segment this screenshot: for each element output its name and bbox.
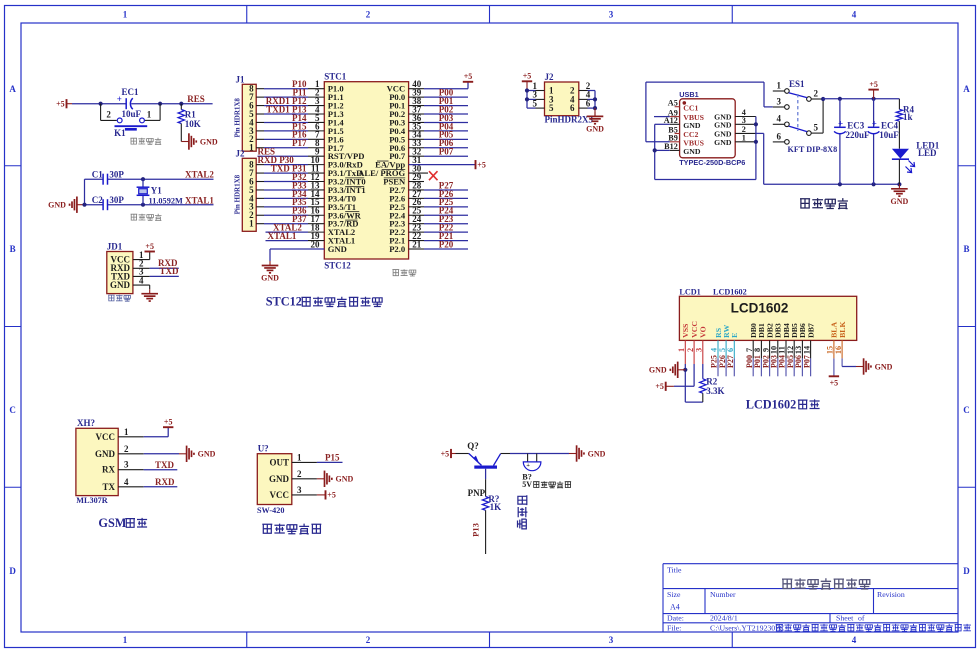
connector JD1 [107,242,150,294]
svg-text:+5: +5 [164,418,173,427]
wire GSM RXD [144,486,178,488]
svg-text:+5: +5 [869,80,878,89]
net label XTAL2 (crystal) [185,169,214,179]
svg-text:A: A [963,84,970,94]
svg-text:4: 4 [852,635,857,645]
LED1 [892,140,940,184]
svg-text:RXD P30: RXD P30 [258,155,295,165]
svg-text:PinHDR2X3: PinHDR2X3 [545,115,594,125]
wire GSM TXD [144,469,178,471]
ground (sensor) [317,471,354,487]
svg-text:6: 6 [777,131,782,141]
svg-text:1K: 1K [490,502,502,512]
net label RES [187,94,205,104]
svg-text:LCD1602: LCD1602 [713,288,747,297]
svg-text:3: 3 [777,96,782,106]
resistor R2 3.3K [685,364,724,402]
svg-text:4: 4 [139,275,144,285]
power +5 (reset) [56,99,66,108]
svg-text:RXD: RXD [155,477,175,487]
svg-text:TXD: TXD [155,460,175,470]
power +5 (MCU EA pin31) [409,160,486,169]
svg-text:GND: GND [261,274,279,283]
pin29 stub [409,181,424,183]
svg-text:C: C [9,405,16,415]
net label RXD (JD1) [158,258,178,268]
power +5 (MCU VCC pin40) [409,72,474,89]
svg-text:+5: +5 [145,242,154,251]
svg-text:GND: GND [714,138,732,147]
wire USB GND loop [653,117,840,185]
svg-text:RX: RX [102,465,115,475]
svg-text:LED: LED [918,148,937,158]
svg-text:+: + [838,119,843,129]
svg-text:2024/8/1: 2024/8/1 [710,614,738,623]
power +5 (sensor) [317,490,336,499]
svg-text:2: 2 [124,444,129,454]
svg-text:XH?: XH? [77,418,95,428]
svg-text:B: B [963,244,969,254]
wire XTAL2 row [266,231,325,233]
svg-text:Revision: Revision [877,590,905,599]
section title 蜂鸣器 vertical [518,495,528,529]
op-amp U1 : MCU STC12 [311,72,422,271]
svg-text:+5: +5 [523,72,532,81]
svg-text:VSS: VSS [681,324,690,338]
svg-text:4: 4 [852,10,857,20]
svg-text:2: 2 [366,10,371,20]
connector J2 Pin HDR1X8 [233,149,256,232]
svg-text:ES1: ES1 [789,79,805,89]
node junction A [99,102,103,106]
svg-text:+5: +5 [327,491,336,500]
svg-text:C:\Users\.YT2192307C: C:\Users\.YT2192307C [710,623,784,632]
svg-text:1: 1 [249,143,254,153]
ground (power circuit) [891,184,909,206]
svg-text:4: 4 [777,114,782,124]
svg-text:GND: GND [875,362,893,371]
wire XTAL1 row [266,240,325,242]
wire RES row [258,155,325,157]
svg-text:1: 1 [297,452,302,462]
svg-text:J2: J2 [236,149,246,159]
ground (reset R1) [181,133,218,149]
svg-text:GND: GND [588,449,606,458]
wire MCU right port rows + net labels P00-P07 P20-P27 [409,88,468,250]
svg-text:5: 5 [814,123,819,133]
svg-text:STC12: STC12 [266,295,302,309]
ground (GSM) [144,446,216,462]
svg-text:STC12: STC12 [324,260,351,270]
svg-text:KFT DIP-8X8: KFT DIP-8X8 [788,145,838,154]
net label RXD (GSM) [155,477,175,487]
crystal Y1 11.0592M [137,179,183,205]
power +5 (J2 header) [522,72,536,108]
net label XTAL1 (crystal) [185,195,214,205]
svg-text:C: C [963,405,970,415]
svg-text:GND: GND [683,121,701,130]
svg-text:SW-420: SW-420 [257,506,284,515]
svg-text:GSM: GSM [98,516,126,530]
svg-text:1: 1 [123,10,128,20]
svg-text:Pin HDR1X8: Pin HDR1X8 [233,174,241,214]
svg-text:+5: +5 [830,379,839,388]
pin30 no-ERC cross [409,171,438,180]
svg-text:+5: +5 [56,100,65,109]
svg-text:30P: 30P [109,169,124,179]
svg-text:10K: 10K [185,119,201,129]
resistor R1 10K [178,102,201,142]
svg-text:VCC: VCC [96,432,116,442]
svg-text:D: D [963,566,970,576]
svg-text:Sheet: Sheet [836,614,854,623]
svg-text:+: + [526,462,530,469]
section title STC12单片机最小系统 [266,295,382,309]
svg-text:5: 5 [549,103,554,113]
svg-text:+5: +5 [477,160,486,169]
svg-text:STC1: STC1 [324,72,347,82]
svg-text:1: 1 [147,110,152,120]
svg-text:RES: RES [187,94,205,104]
wire +5 to RES net [67,103,213,105]
power +5 (LCD VCC) [655,364,694,391]
svg-text:TX: TX [102,482,115,492]
power +5 (buzzer) [441,449,456,458]
svg-text:A4: A4 [670,603,680,612]
svg-text:2: 2 [686,348,695,352]
connector J1 Pin HDR1X8 [233,75,256,153]
svg-text:Pin HDR1X8: Pin HDR1X8 [233,98,241,138]
svg-text:GND: GND [269,474,290,484]
ground (JD1) [141,285,158,301]
svg-text:OUT: OUT [269,457,289,467]
svg-text:+5: +5 [655,382,664,391]
section title LCD1602显示 [746,397,820,411]
svg-text:3: 3 [695,348,704,352]
svg-text:JD1: JD1 [107,242,123,252]
ground (LCD BLK) [842,358,893,374]
svg-text:ML307R: ML307R [76,496,107,505]
svg-text:U?: U? [258,444,269,454]
power +5 (power circuit) [868,80,878,99]
svg-text:Y1: Y1 [151,186,162,196]
svg-text:VCC: VCC [270,490,290,500]
svg-text:1: 1 [249,219,254,229]
label 单片机 [392,269,415,276]
power +5 (GSM) [144,418,174,437]
ground (crystal) [48,197,84,213]
svg-text:16: 16 [834,346,843,354]
svg-text:PNP: PNP [468,488,486,498]
svg-text:3.3K: 3.3K [706,386,724,396]
svg-text:P2.0: P2.0 [389,244,405,254]
node junction B [158,102,162,106]
svg-text:GND: GND [586,124,604,133]
connector U? SW-420 [257,444,317,515]
svg-text:VO: VO [699,326,708,338]
svg-text:J1: J1 [236,75,246,85]
ground (MCU pin20) [261,249,324,282]
svg-text:3: 3 [742,116,746,125]
svg-text:10uF: 10uF [879,130,899,140]
svg-text:C2: C2 [92,195,103,205]
svg-text:P17: P17 [292,138,307,148]
transistor U? : USB1 TYPEC-250D-BCP6 [664,90,756,167]
svg-text:3: 3 [124,460,129,470]
svg-text:3: 3 [297,485,302,495]
resistor R4 1k [896,99,914,149]
resistor R? 1K [482,469,501,554]
svg-text:USB1: USB1 [679,90,698,99]
svg-text:VCC: VCC [690,321,699,338]
wire crystal gnd/left [85,179,214,205]
svg-text:DB7: DB7 [806,323,815,338]
svg-text:E: E [730,333,739,338]
net label P15 [325,453,340,463]
ground (LCD VSS) [649,362,687,403]
svg-text:+: + [117,94,122,104]
svg-text:11.0592M: 11.0592M [149,196,184,205]
svg-text:2: 2 [297,469,302,479]
svg-text:2: 2 [814,88,819,98]
svg-text:LCD1: LCD1 [679,288,700,297]
svg-text:B: B [10,244,16,254]
wire JD1 RXD [150,267,179,269]
op-amp LCD1 : LCD1602 [677,288,857,364]
svg-text:P07: P07 [802,355,811,368]
svg-text:30P: 30P [109,195,124,205]
svg-text:6: 6 [570,103,575,113]
svg-text:XTAL1: XTAL1 [268,231,297,241]
section title GSM模块 [98,516,147,530]
svg-text:P13: P13 [471,523,481,537]
svg-text:GND: GND [110,280,131,290]
svg-text:1: 1 [677,348,686,352]
svg-text:GND: GND [714,120,732,129]
svg-text:4: 4 [124,477,129,487]
net label P13 [471,523,481,537]
capacitor C2 30P [92,195,125,210]
svg-text:14: 14 [802,346,811,354]
svg-text:10uF: 10uF [122,109,142,119]
wire VBUS loop to switch [646,82,773,142]
wire JD1 TXD [150,275,179,277]
svg-text:GND: GND [200,137,218,146]
section title 电源电路 [800,198,848,209]
svg-text:Title: Title [667,565,682,574]
svg-text:220uF: 220uF [846,130,871,140]
power +5 (LCD BLA) [829,358,839,387]
svg-text:GND: GND [336,475,354,484]
svg-text:5V: 5V [522,480,532,489]
svg-text:BLK: BLK [838,321,847,337]
svg-text:EC1: EC1 [122,87,140,97]
svg-text:1: 1 [777,80,782,90]
svg-text:GND: GND [891,197,909,206]
buzzer B? [522,454,571,490]
svg-text:TXD: TXD [160,266,180,276]
switch K1 (push button) [101,104,161,139]
svg-text:R2: R2 [706,377,717,387]
svg-text:P27: P27 [726,355,735,368]
svg-text:K1: K1 [114,128,126,138]
svg-text:GND: GND [649,366,667,375]
svg-text:1: 1 [123,635,128,645]
wire collector to gnd [501,453,569,455]
power +5 (JD1) [145,242,155,260]
svg-text:2: 2 [106,110,111,120]
svg-text:P15: P15 [325,453,340,463]
wire LCD data nets P25-P27 P00-P07 [710,355,812,376]
connector XH? GSM ML307R [76,418,144,505]
svg-text:+5: +5 [441,449,450,458]
wire sensor OUT P15 [317,461,343,463]
connector J2 PinHDR2X3 [533,72,594,125]
svg-text:P20: P20 [439,239,454,249]
label 下载口 [108,295,130,302]
wire GND rail (power) [838,182,902,186]
svg-text:XTAL2: XTAL2 [185,169,214,179]
label 按键复位 [130,138,161,145]
net label TXD (GSM) [155,460,175,470]
transistor Q? PNP [456,441,501,498]
svg-text:Size: Size [667,590,681,599]
wire J1/J2 to MCU rows [256,89,324,224]
svg-text:GND: GND [328,244,347,254]
svg-text:1: 1 [742,133,746,142]
switch ES1 KFT DIP-8X8 [773,79,837,154]
capacitor EC4 10uF [868,99,899,185]
svg-text:Date:: Date: [667,614,684,623]
svg-text:GND: GND [683,147,701,156]
svg-text:LCD1602: LCD1602 [731,301,789,316]
svg-text:P07: P07 [439,147,454,157]
label 晶振电路 [131,214,162,221]
ground (buzzer) [569,445,606,461]
svg-text:GND: GND [198,450,216,459]
svg-text:TYPEC-250D-BCP6: TYPEC-250D-BCP6 [679,158,745,167]
svg-text:Number: Number [710,590,736,599]
ground (J2 header) [586,91,604,134]
svg-text:GND: GND [48,201,66,210]
node crystal top [82,177,145,207]
svg-text:A: A [9,84,16,94]
svg-text:3: 3 [609,10,614,20]
svg-text:1k: 1k [903,112,913,122]
svg-text:LCD1602: LCD1602 [746,397,797,411]
svg-text:CC1: CC1 [683,103,698,112]
net labels left rows [258,79,307,241]
net label TXD (JD1) [160,266,180,276]
svg-text:File:: File: [667,623,681,632]
svg-text:3: 3 [609,635,614,645]
section title 震动传感器 [262,524,321,534]
svg-text:6: 6 [726,348,735,352]
wire +5 rail (power) [821,97,899,133]
title block [663,564,971,633]
svg-text:2: 2 [366,635,371,645]
svg-text:C1: C1 [92,169,103,179]
svg-text:GND: GND [95,449,116,459]
svg-text:+5: +5 [464,72,473,81]
svg-text:of: of [858,614,865,623]
svg-text:D: D [9,566,16,576]
svg-text:1: 1 [124,427,129,437]
capacitor EC1 [117,87,142,119]
capacitor C1 30P [92,169,125,184]
capacitor EC3 220uF [834,99,870,185]
svg-text:J2: J2 [545,72,555,82]
svg-text:+: + [872,119,877,129]
svg-text:Q?: Q? [467,441,479,451]
svg-text:XTAL1: XTAL1 [185,195,214,205]
